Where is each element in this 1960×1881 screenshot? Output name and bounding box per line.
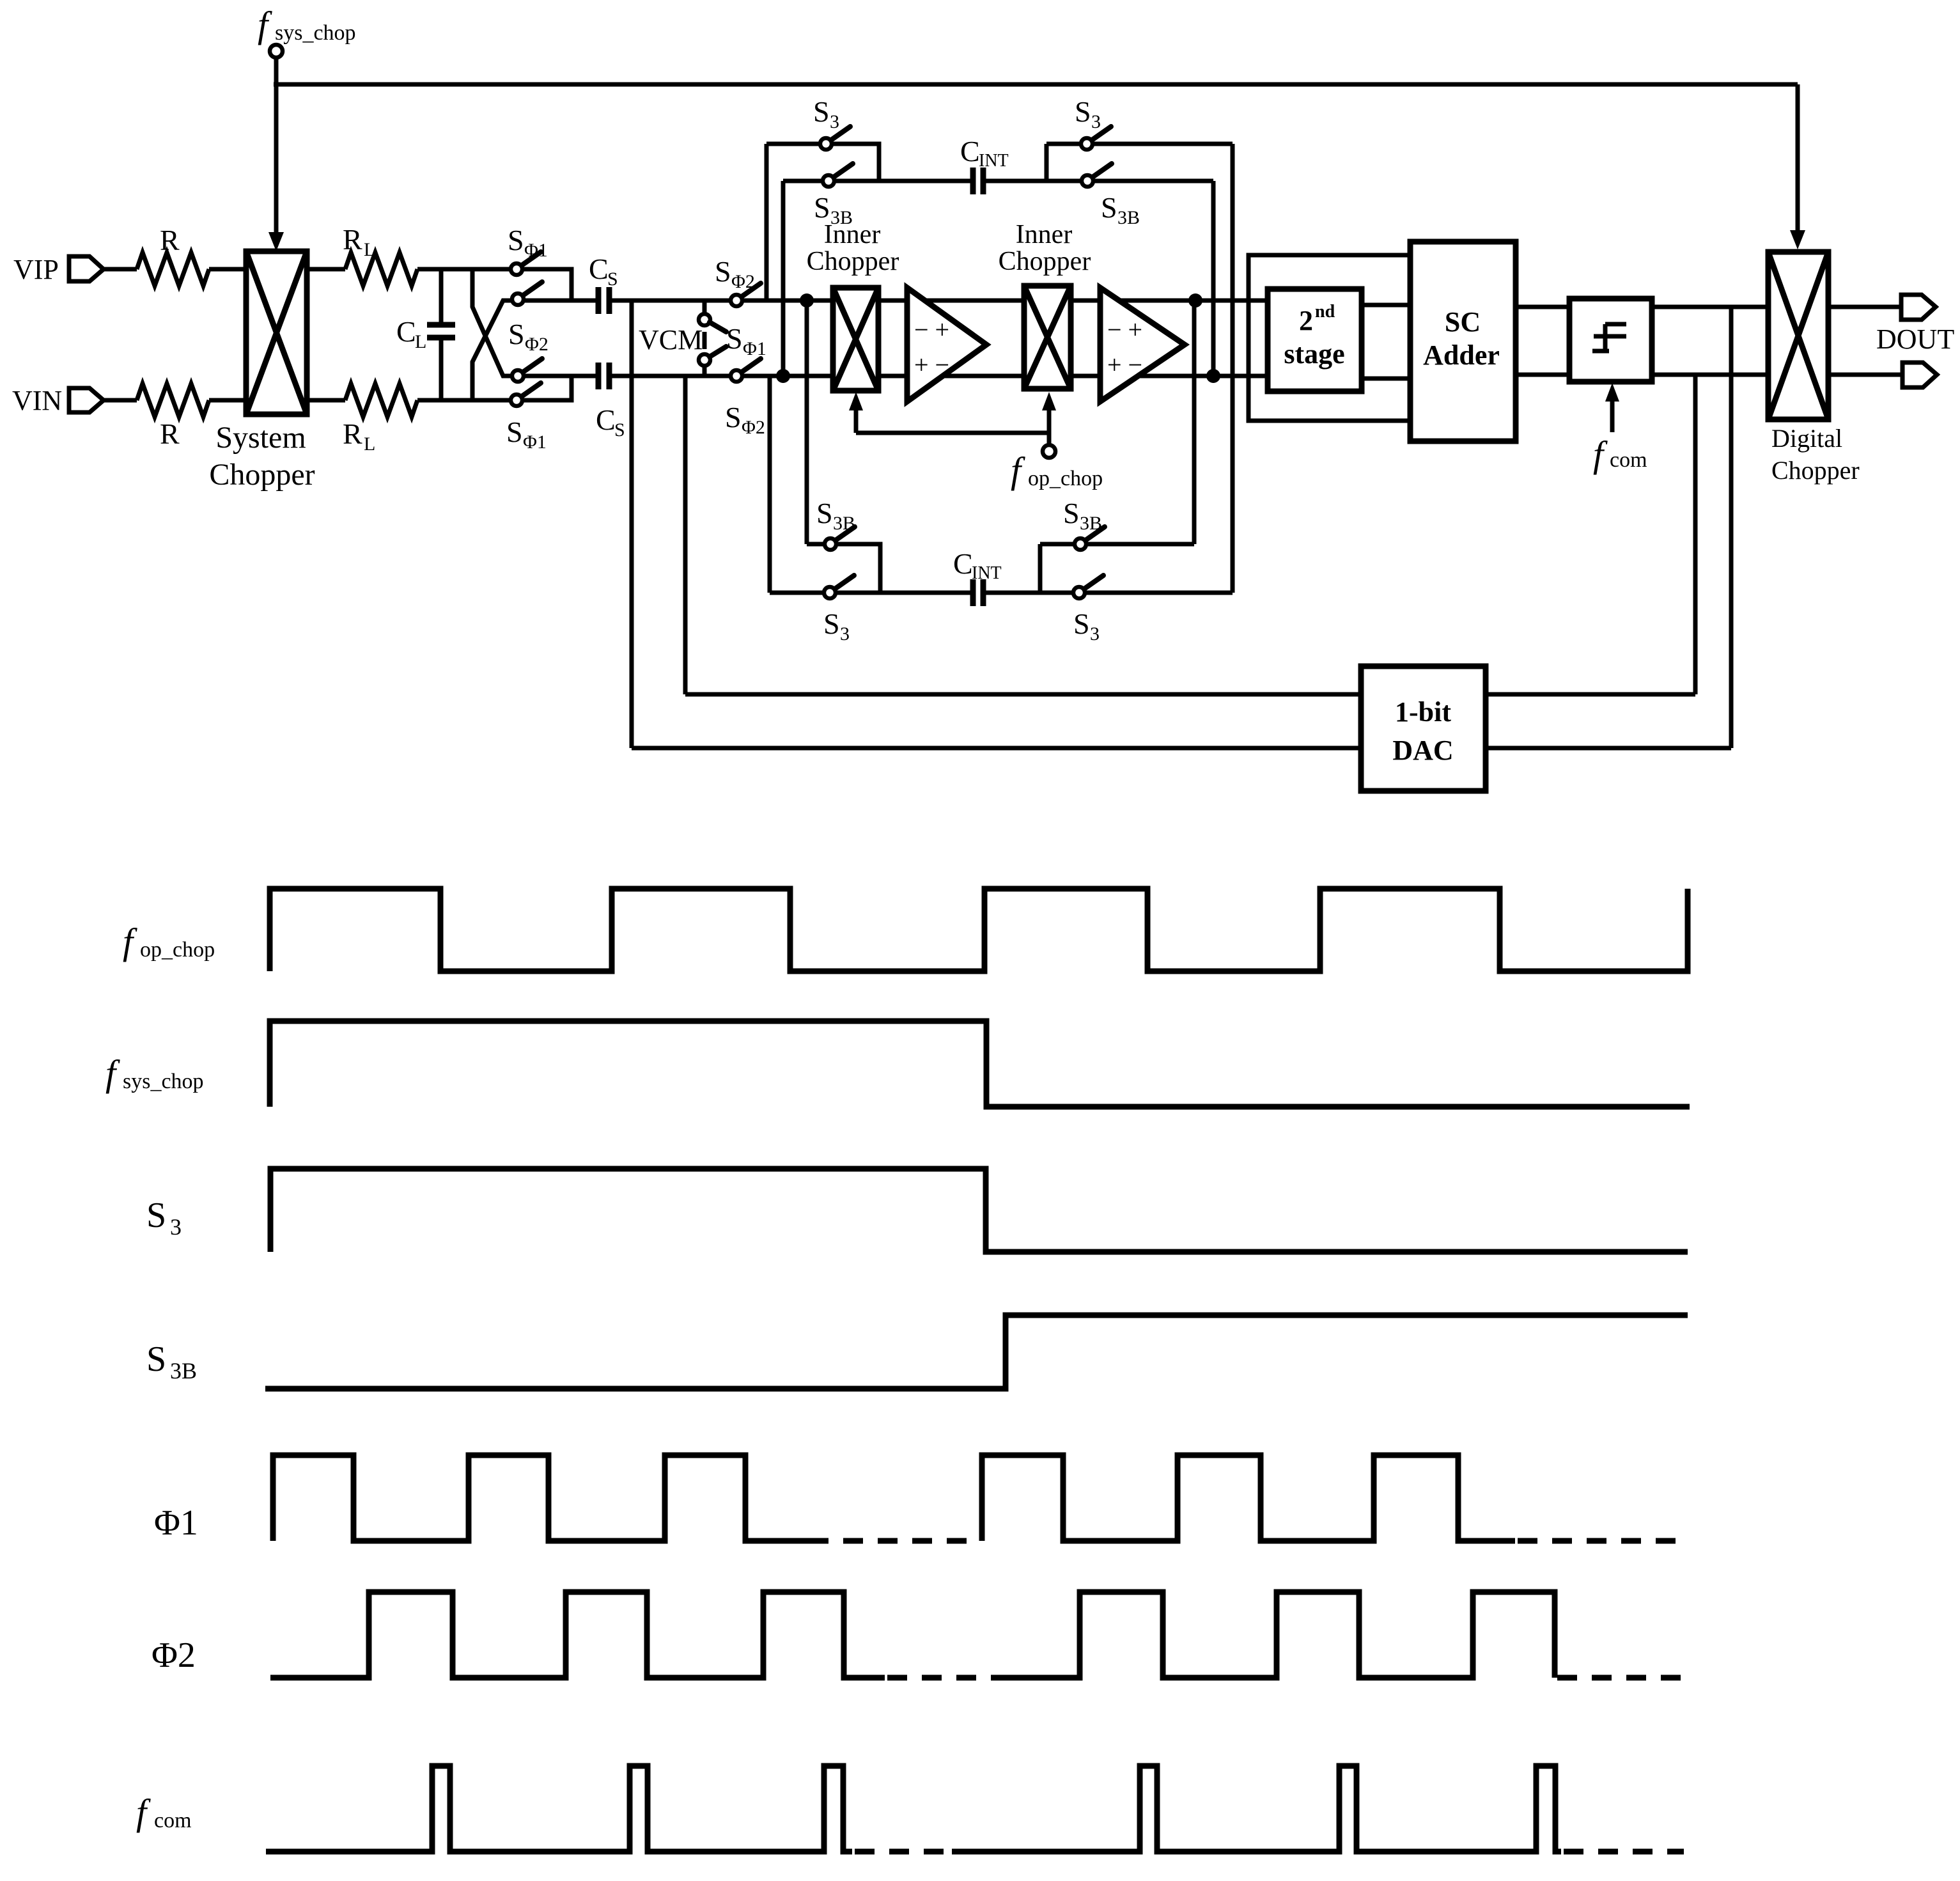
- wire S3 top-right rail: [1046, 142, 1082, 146]
- svg-text:+ −: + −: [1107, 350, 1142, 379]
- wire S3B right vertical to bottom rail dot: [1211, 181, 1216, 376]
- waveform f_com dashed gap: [855, 1849, 952, 1855]
- wire S3 rail to CINT junction: [832, 144, 879, 181]
- svg-text:Chopper: Chopper: [807, 247, 899, 276]
- waveform Phi2 dashed tail: [1557, 1675, 1688, 1681]
- switch S3 (top left): [820, 138, 832, 150]
- svg-text:Φ1: Φ1: [524, 240, 548, 261]
- wire S3 bottom rail right: [1085, 591, 1233, 595]
- svg-text:DOUT: DOUT: [1876, 324, 1954, 355]
- wire 2nd stage to SC adder top: [1362, 303, 1410, 308]
- capacitor CS (bottom): [596, 363, 625, 441]
- resistor R (top): [137, 253, 209, 286]
- waveform S3 trace: [270, 1169, 1688, 1252]
- wire f_sys_chop vertical to system chopper with arrow: [274, 58, 279, 240]
- svg-text:op_chop: op_chop: [140, 938, 215, 962]
- node f_com: [1593, 383, 1647, 475]
- switch S3 (top right): [1081, 138, 1093, 150]
- wire R to system chopper: [209, 398, 246, 403]
- wire RL to switch (top): [417, 267, 511, 272]
- wire DAC left output lower: [632, 746, 1361, 751]
- svg-text:sys_chop: sys_chop: [275, 21, 356, 45]
- svg-text:VIP: VIP: [13, 254, 59, 285]
- wire amp1 to chopper2 top: [926, 299, 1024, 303]
- node dot top output: [1188, 293, 1202, 308]
- svg-text:R: R: [160, 418, 180, 450]
- wire S3B rail to CINT junction: [836, 544, 880, 593]
- waveform f_com dashed tail: [1564, 1849, 1684, 1855]
- waveform Phi1 dashed tail: [1518, 1538, 1688, 1544]
- wire top rail to chopper1: [742, 299, 833, 303]
- wire CS bottom to chopper1: [609, 374, 731, 379]
- svg-text:S: S: [726, 322, 743, 355]
- wire VCM dashed link: [703, 332, 707, 349]
- capacitor CINT (top): [960, 135, 1009, 194]
- op-amp A2: [1100, 288, 1185, 402]
- waveform S3 label: [146, 1196, 182, 1240]
- waveform Phi2 trace: [270, 1592, 885, 1678]
- wire S3 top-left rail: [766, 142, 820, 146]
- wire VCM left vertical (DAC feedback to top rail): [630, 300, 634, 748]
- svg-text:VCM: VCM: [639, 324, 703, 355]
- wire DAC left output upper: [685, 692, 1361, 697]
- svg-text:Inner: Inner: [1016, 220, 1073, 249]
- svg-text:nd: nd: [1315, 302, 1335, 322]
- svg-text:3: 3: [170, 1214, 182, 1240]
- wire SC adder to comparator top: [1516, 305, 1569, 309]
- system chopper U1: [209, 251, 315, 492]
- wire digital chopper to DOUT top: [1828, 305, 1901, 309]
- wire 2nd-stage bus upper: [1248, 255, 1410, 421]
- capacitor CS (top): [589, 253, 618, 314]
- svg-text:R: R: [343, 223, 362, 256]
- wire S3B left vertical: [781, 181, 786, 376]
- waveform Phi1 trace part2: [982, 1455, 1515, 1541]
- svg-text:S: S: [1073, 607, 1090, 640]
- wire DAC right input lower: [1486, 746, 1731, 751]
- switch S_phi2 (lower, cross-fed): [512, 359, 765, 438]
- node dot top input: [800, 293, 814, 308]
- waveform f_sys_chop label: [105, 1052, 204, 1094]
- S3 upper-left network: [766, 95, 879, 300]
- svg-text:− +: − +: [914, 315, 949, 344]
- wire feedback tap bottom: [1693, 375, 1698, 694]
- svg-text:sys_chop: sys_chop: [123, 1070, 204, 1093]
- node f_op_chop: [849, 392, 1103, 491]
- svg-text:stage: stage: [1284, 338, 1344, 370]
- op-amp A1: [907, 288, 986, 402]
- wire SC adder to comparator bottom: [1516, 373, 1569, 377]
- wire chopper to RL top: [307, 267, 345, 272]
- waveform Phi1 trace: [273, 1455, 809, 1541]
- comparator U2: [1569, 299, 1652, 382]
- svg-text:S: S: [813, 95, 830, 128]
- svg-text:3: 3: [840, 623, 850, 644]
- switch S3B (top left): [823, 175, 834, 187]
- waveform Phi2 trace part2: [991, 1592, 1555, 1678]
- wire S3 left vertical: [765, 144, 769, 300]
- svg-text:C: C: [589, 253, 609, 285]
- waveform S3B label: [146, 1339, 197, 1384]
- svg-text:3: 3: [1090, 623, 1100, 644]
- svg-text:DAC: DAC: [1392, 735, 1453, 766]
- svg-text:VIN: VIN: [12, 385, 62, 416]
- svg-text:Φ2: Φ2: [525, 334, 548, 355]
- wire VIP to R: [104, 267, 137, 272]
- wire chopper1 to amp1 top: [878, 299, 907, 303]
- svg-text:− +: − +: [1107, 315, 1142, 344]
- svg-text:S: S: [1101, 191, 1117, 224]
- svg-text:R: R: [160, 224, 180, 256]
- svg-text:INT: INT: [972, 563, 1002, 583]
- switch S_phi1 VCM (upper): [699, 299, 726, 332]
- svg-text:com: com: [1610, 448, 1647, 472]
- svg-text:SC: SC: [1445, 306, 1481, 338]
- wire S3B bottom-right rail: [1040, 542, 1075, 547]
- svg-text:Digital: Digital: [1771, 424, 1842, 453]
- svg-text:S: S: [614, 419, 625, 441]
- terminal f_sys_chop: [270, 45, 283, 58]
- switch S_phi1 VCM (lower): [699, 322, 766, 376]
- svg-text:Chopper: Chopper: [209, 458, 315, 492]
- wire S3B rail to CINT: [834, 179, 973, 183]
- switch S3 (bottom left): [824, 587, 836, 598]
- resistor RL (top): [345, 253, 417, 286]
- svg-text:S: S: [816, 497, 833, 529]
- switch S3 (bottom right): [1073, 587, 1085, 598]
- svg-text:S: S: [508, 224, 524, 256]
- wire S3B top-left rail: [783, 179, 823, 183]
- svg-text:S: S: [607, 269, 618, 290]
- wire S3B rail right: [1086, 542, 1194, 547]
- wire amp2 output top: [1119, 299, 1268, 303]
- inner chopper 2: [999, 220, 1091, 389]
- wire S_phi1 top jog to CS: [522, 269, 572, 300]
- switch S_phi2 mid (bottom rail): [731, 359, 761, 382]
- wire feedback tap top: [1729, 307, 1734, 748]
- input port VIN: [69, 388, 104, 412]
- svg-text:L: L: [364, 433, 375, 455]
- svg-text:Φ2: Φ2: [731, 271, 755, 292]
- svg-text:3B: 3B: [1117, 207, 1140, 228]
- svg-text:Φ2: Φ2: [742, 417, 765, 438]
- switch S_phi1 (VIN row): [506, 383, 547, 453]
- wire S3B bottom-left rail: [807, 542, 825, 547]
- svg-text:C: C: [596, 403, 616, 436]
- svg-text:3B: 3B: [1080, 513, 1102, 534]
- svg-text:Chopper: Chopper: [1771, 456, 1860, 485]
- svg-text:S: S: [506, 416, 523, 448]
- svg-text:L: L: [364, 239, 375, 260]
- digital chopper U3: [1768, 252, 1860, 485]
- wire S3 bottom-left rail: [770, 591, 824, 595]
- svg-text:Φ2: Φ2: [152, 1635, 196, 1675]
- wire S3 rail to CINT: [836, 591, 973, 595]
- svg-text:S: S: [1063, 497, 1080, 529]
- wire CS top to chopper1: [609, 299, 731, 303]
- wire DAC right input upper: [1486, 692, 1695, 697]
- svg-text:S: S: [823, 607, 840, 640]
- wire VIN to R: [104, 398, 137, 403]
- output port DOUT top: [1901, 295, 1936, 320]
- waveform f_op_chop trace: [270, 889, 1688, 971]
- wire f_op_chop arrow into chopper1: [854, 399, 859, 433]
- waveform f_com label: [136, 1791, 192, 1833]
- wire comparator to digital chopper top: [1652, 305, 1768, 309]
- node dot bottom input: [776, 369, 790, 383]
- 1-bit DAC block: [1361, 666, 1486, 791]
- waveform f_com trace: [266, 1766, 852, 1852]
- svg-text:C: C: [953, 547, 973, 580]
- svg-text:S: S: [725, 401, 742, 433]
- wire chopper2 to amp2 top: [1071, 299, 1100, 303]
- wire S_phi1 bottom jog to CS: [522, 376, 572, 400]
- svg-text:com: com: [154, 1809, 192, 1832]
- input port VIP: [69, 256, 104, 281]
- wire chopper to RL bottom: [307, 398, 345, 403]
- svg-text:Adder: Adder: [1423, 340, 1500, 371]
- resistor R (bottom): [137, 384, 209, 417]
- wire S3B rail to right vertical: [1093, 179, 1213, 183]
- svg-text:C: C: [960, 135, 980, 168]
- 2nd stage block: [1268, 289, 1362, 391]
- svg-text:Chopper: Chopper: [999, 247, 1091, 276]
- waveform f_com trace part2: [952, 1766, 1561, 1852]
- svg-text:S: S: [146, 1196, 166, 1235]
- svg-text:System: System: [215, 421, 306, 455]
- svg-text:3: 3: [1091, 111, 1101, 132]
- capacitor CL: [396, 269, 455, 400]
- svg-text:Φ1: Φ1: [154, 1503, 198, 1543]
- wire bottom rail to chopper1: [742, 374, 833, 379]
- wire cross-couple B (VIN row to upper S_phi2): [472, 300, 512, 400]
- wire CINT bottom to right junction: [983, 544, 1073, 593]
- wire VCM right vertical (DAC feedback to bottom rail): [683, 376, 688, 694]
- switch S3B (top right): [1082, 175, 1093, 187]
- wire CINT to right junction: [983, 144, 1082, 181]
- wire f_op_chop arrow into chopper2: [1047, 399, 1052, 433]
- switch S_phi1 (VIP row): [508, 224, 548, 275]
- wire amp1 to chopper2 bottom: [944, 374, 1024, 379]
- wire R to system chopper: [209, 267, 246, 272]
- svg-text:+ −: + −: [914, 350, 949, 379]
- svg-text:op_chop: op_chop: [1028, 467, 1103, 490]
- resistor RL (bottom): [345, 384, 417, 417]
- svg-text:Φ1: Φ1: [743, 338, 766, 359]
- switch S3B (bottom left): [825, 538, 836, 550]
- SC adder block: [1410, 242, 1516, 441]
- svg-text:2: 2: [1299, 305, 1313, 336]
- node f_sys_chop label: [258, 4, 356, 45]
- wire cross-couple A (VIP row to lower S_phi2): [472, 269, 512, 376]
- svg-text:C: C: [396, 315, 416, 348]
- S3 lower network: [807, 300, 880, 593]
- node dot bottom output: [1206, 369, 1220, 383]
- waveform S3B trace: [265, 1315, 1688, 1389]
- svg-text:R: R: [343, 418, 362, 450]
- switch S3B (bottom right): [1075, 538, 1086, 550]
- capacitor CINT (bottom): [953, 547, 1002, 606]
- wire S_phi2 lower output to CS: [524, 374, 598, 379]
- switch S_phi2 mid (top rail): [715, 255, 761, 306]
- waveform f_op_chop label: [123, 921, 215, 962]
- terminal f_op_chop: [1047, 433, 1052, 446]
- svg-text:S: S: [715, 255, 731, 288]
- output port DOUT bottom: [1902, 363, 1937, 387]
- svg-text:3B: 3B: [833, 513, 855, 534]
- wire amp2 output bottom: [1137, 374, 1268, 379]
- waveform Phi1 dashed gap: [809, 1538, 979, 1544]
- svg-text:L: L: [415, 331, 426, 352]
- svg-text:S: S: [814, 191, 830, 224]
- switch S_phi2 (upper, cross-fed): [508, 282, 548, 355]
- wire comparator to digital chopper bottom: [1652, 373, 1768, 377]
- svg-text:1-bit: 1-bit: [1395, 696, 1451, 728]
- wire 2nd stage to SC adder bottom: [1362, 377, 1410, 381]
- inner chopper 1: [807, 220, 899, 391]
- wire chopper1 to amp1 bottom: [878, 374, 907, 379]
- svg-text:Inner: Inner: [824, 220, 881, 249]
- wire S3 rail to right vertical: [1093, 142, 1233, 146]
- svg-text:S: S: [146, 1339, 166, 1379]
- wire f_sys_chop horizontal top rail: [274, 82, 1798, 87]
- waveform Phi2 dashed gap: [887, 1675, 991, 1681]
- svg-text:INT: INT: [979, 151, 1009, 171]
- wire digital chopper to DOUT bottom: [1828, 373, 1902, 377]
- wire RL to switch (bottom): [417, 398, 511, 403]
- svg-text:S: S: [1075, 95, 1091, 128]
- wire S_phi2 upper output to CS: [524, 299, 598, 303]
- svg-text:Φ1: Φ1: [523, 432, 547, 453]
- svg-text:3B: 3B: [170, 1358, 197, 1384]
- wire S3 bottom-left vertical: [768, 376, 772, 593]
- wire S3B right vertical to top dot: [1192, 300, 1197, 544]
- wire f_op_chop horizontal: [856, 431, 1049, 435]
- svg-text:3: 3: [830, 111, 839, 132]
- wire S3B bottom-left vertical from top dot: [805, 300, 809, 544]
- wire S3 right vertical: [1231, 144, 1235, 593]
- wire f_sys_chop down to digital chopper with arrow: [1796, 84, 1800, 238]
- svg-text:S: S: [508, 318, 525, 350]
- wire chopper2 to amp2 bottom: [1071, 374, 1100, 379]
- waveform f_sys_chop trace: [270, 1021, 1690, 1107]
